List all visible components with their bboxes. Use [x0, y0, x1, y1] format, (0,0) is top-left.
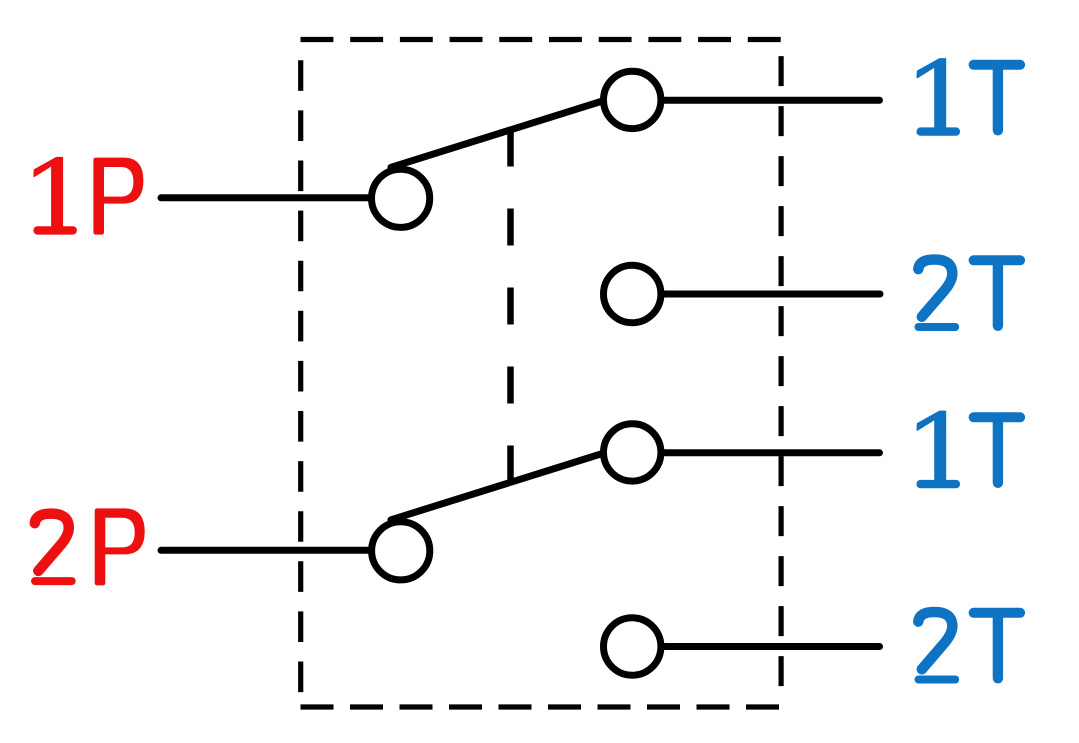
throw terminal 1T contact (pole 2) — [604, 424, 661, 481]
mechanical link (dashed tie between poles) — [507, 130, 514, 482]
switch lever pole 2 — [391, 453, 604, 520]
label 2T (pole 1 bottom throw) — [918, 260, 1020, 328]
label 2T (pole 2 bottom throw) — [918, 612, 1020, 680]
wire 2T lead (pole 1) — [659, 291, 880, 298]
switch lever pole 1 — [391, 101, 604, 168]
wire 2T lead (pole 2) — [659, 643, 880, 650]
throw terminal 2T contact (pole 2) — [604, 618, 661, 675]
wire 1T lead (pole 1) — [659, 97, 880, 104]
pole terminal 2P contact — [372, 522, 430, 580]
pole terminal 1P contact — [372, 169, 430, 227]
label 1P — [33, 158, 143, 235]
label 1T (pole 2 top throw) — [917, 411, 1021, 488]
label 1T (pole 1 top throw) — [917, 59, 1021, 136]
throw terminal 1T contact (pole 1) — [604, 71, 661, 128]
throw terminal 2T contact (pole 1) — [604, 265, 661, 322]
wire 1P lead — [161, 194, 372, 201]
wire 1T lead (pole 2) — [659, 449, 880, 456]
switch enclosure (dashed box) — [301, 40, 782, 708]
wire 2P lead — [161, 547, 372, 554]
label 2P — [35, 508, 145, 585]
